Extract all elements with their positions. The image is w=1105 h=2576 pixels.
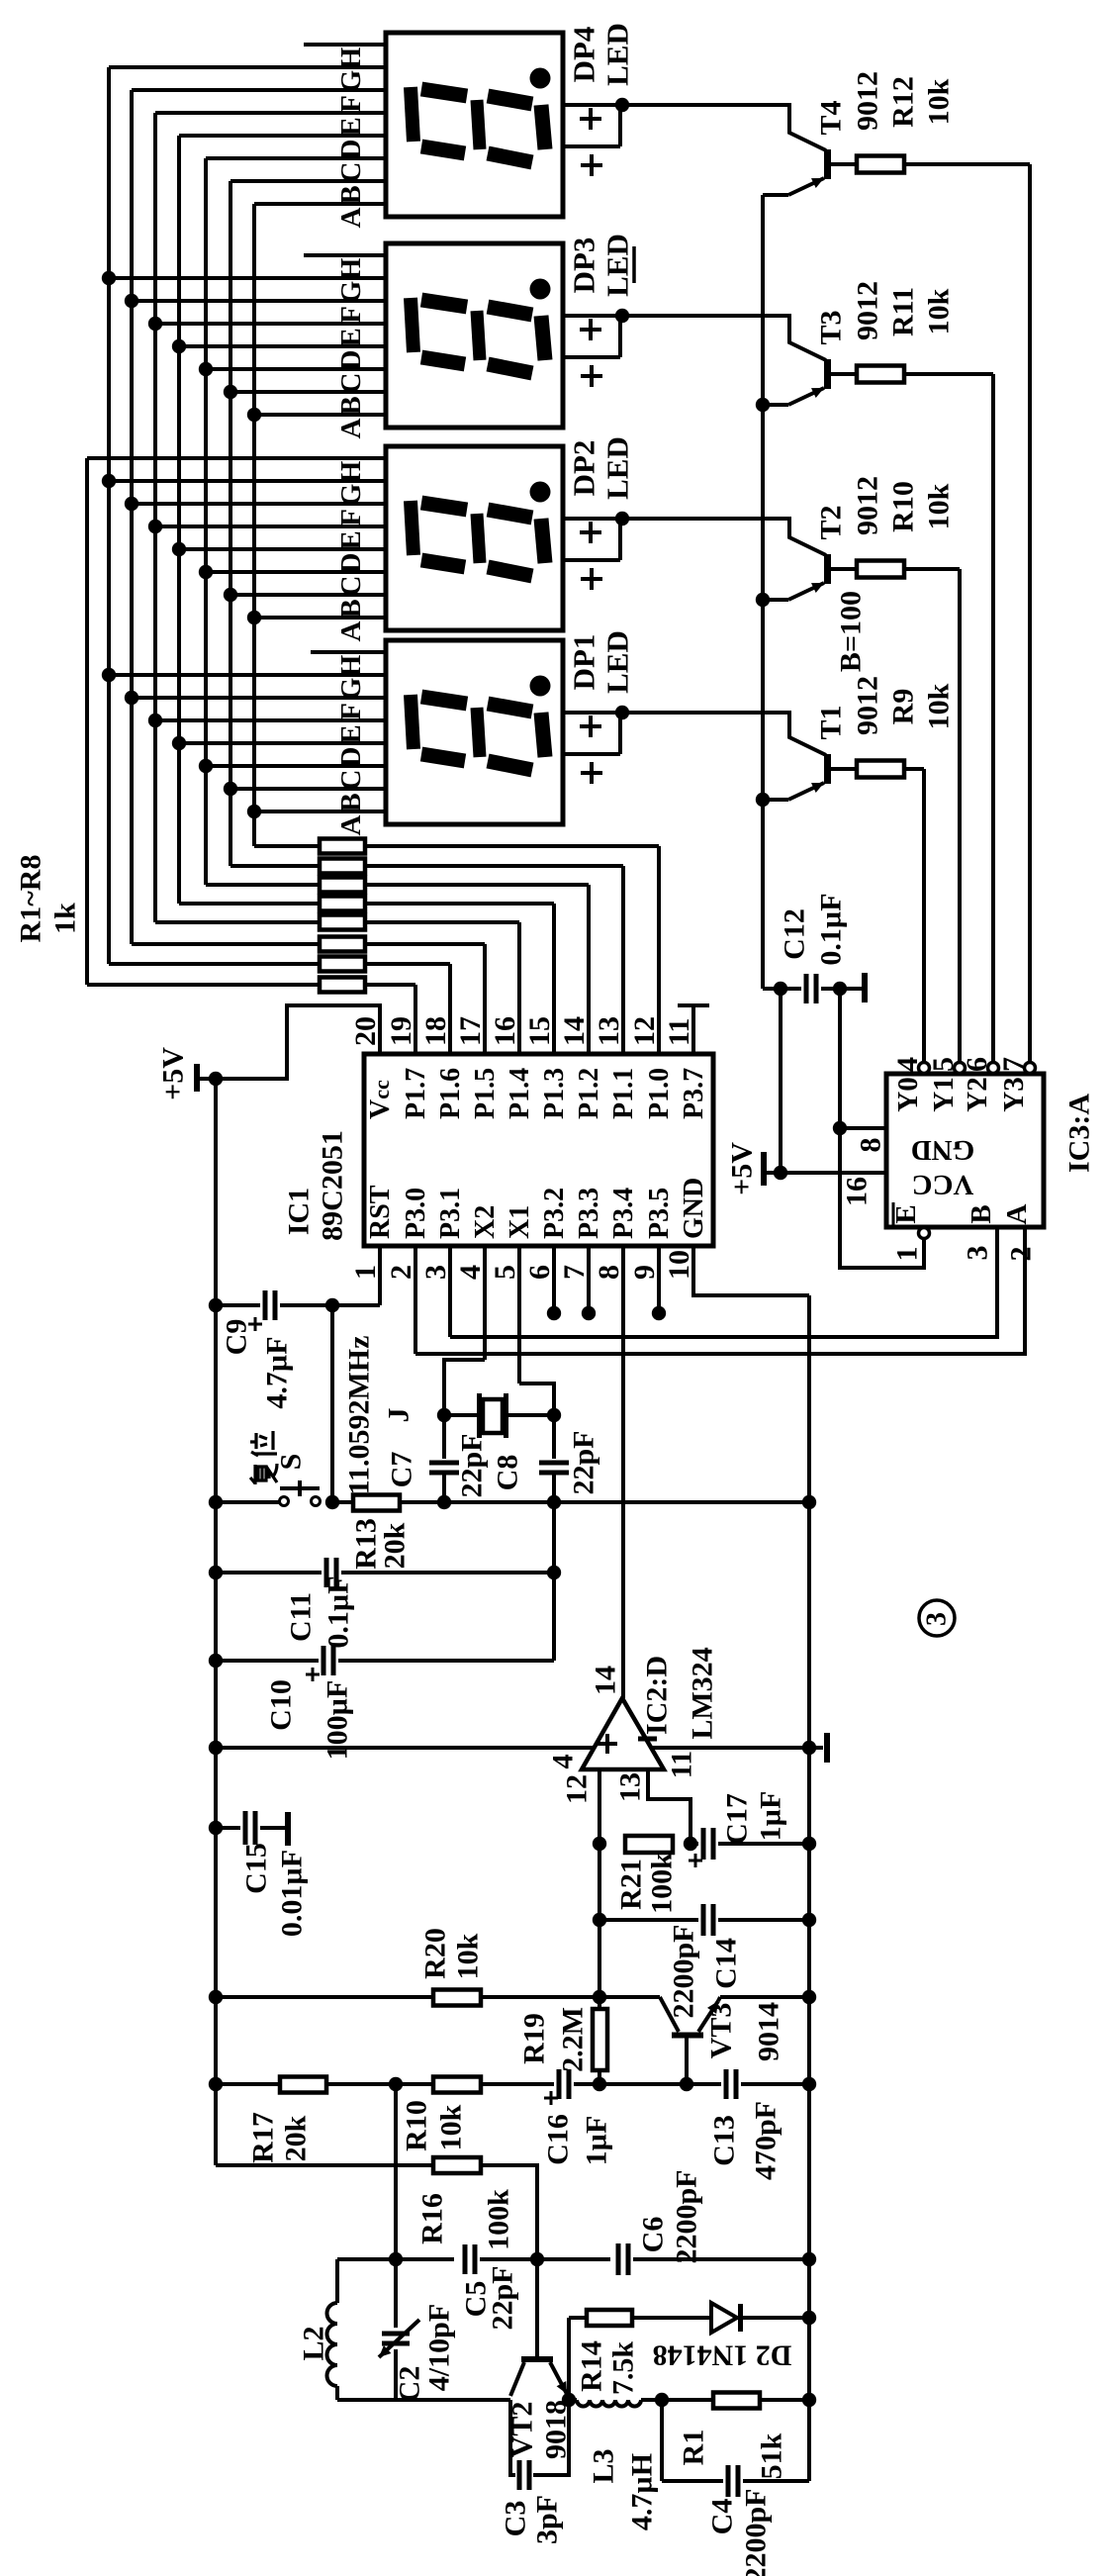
svg-text:15: 15: [523, 1016, 556, 1046]
svg-text:S: S: [275, 1454, 308, 1471]
svg-text:P1.4: P1.4: [505, 1068, 535, 1119]
svg-text:13: 13: [614, 1772, 647, 1802]
svg-text:17: 17: [454, 1016, 487, 1046]
svg-text:14: 14: [590, 1666, 622, 1695]
svg-text:R11: R11: [887, 287, 920, 336]
svg-text:C13: C13: [708, 2115, 741, 2166]
svg-text:P1.0: P1.0: [644, 1068, 675, 1119]
svg-text:7.5k: 7.5k: [607, 2341, 640, 2396]
svg-text:B=100: B=100: [835, 591, 868, 672]
svg-text:LED: LED: [600, 630, 635, 694]
svg-text:19: 19: [385, 1016, 417, 1046]
svg-text:R21: R21: [615, 1859, 648, 1910]
svg-text:1µF: 1µF: [755, 1791, 787, 1842]
svg-text:T3: T3: [815, 310, 848, 344]
svg-text:C9: C9: [221, 1319, 253, 1356]
svg-text:100k: 100k: [483, 2189, 515, 2250]
svg-text:GND: GND: [911, 1134, 974, 1166]
svg-text:DP3: DP3: [567, 238, 601, 294]
svg-text:R10: R10: [401, 2100, 433, 2151]
svg-text:12: 12: [628, 1016, 661, 1046]
svg-text:L3: L3: [588, 2448, 620, 2483]
svg-text:6: 6: [961, 1057, 993, 1072]
svg-text:2.2M: 2.2M: [557, 2007, 590, 2072]
svg-text:7: 7: [558, 1265, 591, 1280]
svg-text:R19: R19: [518, 2013, 551, 2064]
svg-text:2200pF: 2200pF: [668, 1924, 700, 2018]
svg-text:10k: 10k: [923, 683, 956, 729]
svg-text:11.0592MHz: 11.0592MHz: [343, 1336, 376, 1495]
svg-text:T4: T4: [815, 100, 848, 135]
svg-text:12: 12: [561, 1774, 594, 1804]
svg-text:2: 2: [1005, 1247, 1038, 1262]
svg-text:A: A: [335, 814, 367, 835]
svg-text:L2: L2: [298, 2326, 330, 2360]
svg-text:0.1µF: 0.1µF: [322, 1575, 355, 1648]
svg-text:R16: R16: [416, 2193, 449, 2244]
svg-text:P1.1: P1.1: [608, 1068, 639, 1119]
svg-text:9: 9: [628, 1265, 661, 1280]
svg-text:14: 14: [558, 1016, 591, 1046]
svg-text:89C2051: 89C2051: [317, 1130, 349, 1241]
svg-text:10k: 10k: [452, 1933, 485, 1979]
svg-text:C6: C6: [637, 2217, 670, 2253]
svg-text:Y3: Y3: [998, 1077, 1030, 1111]
svg-text:5: 5: [489, 1265, 521, 1280]
svg-text:F: F: [335, 509, 367, 526]
svg-text:4: 4: [454, 1265, 487, 1280]
svg-text:DP1: DP1: [567, 634, 601, 691]
svg-text:C15: C15: [240, 1843, 273, 1894]
svg-text:D2 1N4148: D2 1N4148: [653, 2339, 792, 2372]
svg-text:6: 6: [523, 1265, 556, 1280]
svg-text:P1.6: P1.6: [435, 1068, 466, 1119]
svg-text:4/10pF: 4/10pF: [423, 2304, 456, 2391]
svg-text:VT3: VT3: [705, 2003, 738, 2059]
svg-text:3: 3: [962, 1246, 994, 1261]
svg-text:R9: R9: [887, 689, 920, 725]
svg-text:B: B: [335, 599, 367, 618]
svg-text:B: B: [966, 1204, 997, 1223]
svg-text:P1.7: P1.7: [401, 1068, 431, 1119]
svg-text:E: E: [335, 328, 367, 346]
svg-text:P3.1: P3.1: [435, 1188, 466, 1239]
svg-text:1µF: 1µF: [581, 2116, 613, 2166]
svg-text:+5V: +5V: [726, 1142, 759, 1195]
svg-text:8: 8: [593, 1265, 625, 1280]
svg-text:11: 11: [666, 1751, 698, 1778]
svg-text:RST: RST: [365, 1185, 396, 1239]
svg-text:20: 20: [349, 1016, 382, 1046]
svg-text:A: A: [1001, 1203, 1033, 1224]
svg-text:LED: LED: [600, 234, 635, 297]
svg-text:5: 5: [927, 1057, 960, 1072]
svg-text:8: 8: [855, 1138, 887, 1153]
svg-text:470pF: 470pF: [750, 2101, 783, 2180]
svg-text:DP2: DP2: [567, 440, 601, 497]
svg-text:10k: 10k: [435, 2104, 468, 2150]
svg-text:F: F: [335, 306, 367, 324]
svg-text:T2: T2: [815, 505, 848, 539]
svg-text:0.1µF: 0.1µF: [815, 893, 848, 965]
svg-text:LED: LED: [600, 436, 635, 500]
svg-text:R1: R1: [678, 2430, 710, 2466]
svg-text:C4: C4: [706, 2499, 739, 2535]
svg-text:P3.3: P3.3: [574, 1188, 604, 1239]
svg-text:C3: C3: [500, 2501, 532, 2537]
svg-text:9012: 9012: [852, 676, 884, 735]
svg-text:9012: 9012: [852, 281, 884, 340]
svg-text:P3.5: P3.5: [644, 1188, 675, 1239]
svg-text:100k: 100k: [646, 1853, 679, 1914]
svg-text:IC2:D: IC2:D: [641, 1656, 674, 1735]
svg-text:1k: 1k: [49, 903, 82, 934]
svg-text:P3.2: P3.2: [539, 1188, 570, 1239]
svg-text:7: 7: [997, 1057, 1030, 1072]
svg-text:T1: T1: [815, 705, 848, 739]
svg-text:2: 2: [385, 1265, 417, 1280]
svg-text:4: 4: [891, 1057, 924, 1072]
svg-text:R12: R12: [887, 76, 920, 128]
svg-text:IC1: IC1: [283, 1188, 316, 1235]
svg-text:C16: C16: [542, 2114, 575, 2165]
svg-text:X2: X2: [470, 1205, 501, 1239]
svg-text:3: 3: [922, 1612, 953, 1626]
svg-text:E: E: [335, 117, 367, 136]
svg-text:A: A: [335, 620, 367, 641]
svg-text:P3.4: P3.4: [608, 1188, 639, 1239]
svg-text:4: 4: [547, 1755, 580, 1769]
svg-text:Y0: Y0: [892, 1077, 924, 1111]
svg-text:51k: 51k: [756, 2433, 788, 2479]
svg-text:Y1: Y1: [928, 1077, 960, 1111]
svg-text:LM324: LM324: [687, 1647, 719, 1739]
svg-text:22pF: 22pF: [487, 2265, 519, 2330]
svg-text:P3.0: P3.0: [401, 1188, 431, 1239]
svg-text:X1: X1: [505, 1205, 535, 1239]
svg-text:J: J: [383, 1408, 415, 1423]
svg-text:22pF: 22pF: [568, 1430, 600, 1494]
svg-text:A: A: [335, 207, 367, 228]
svg-text:4.7µH: 4.7µH: [626, 2453, 659, 2530]
svg-text:20k: 20k: [379, 1522, 412, 1569]
svg-text:R17: R17: [247, 2112, 280, 2163]
svg-text:F: F: [335, 703, 367, 720]
svg-text:18: 18: [419, 1016, 452, 1046]
svg-text:13: 13: [593, 1016, 625, 1046]
svg-text:3: 3: [419, 1265, 452, 1280]
svg-text:Vcc: Vcc: [365, 1080, 396, 1119]
svg-text:IC3:A: IC3:A: [1063, 1094, 1096, 1173]
svg-text:C17: C17: [721, 1793, 754, 1845]
svg-text:LED: LED: [600, 23, 635, 86]
svg-text:C10: C10: [265, 1679, 298, 1731]
svg-text:9012: 9012: [852, 476, 884, 535]
svg-text:10k: 10k: [923, 78, 956, 125]
svg-text:E: E: [335, 530, 367, 549]
svg-text:E: E: [890, 1204, 922, 1223]
svg-text:GND: GND: [679, 1178, 709, 1239]
svg-text:DP4: DP4: [567, 27, 601, 83]
svg-text:B: B: [335, 793, 367, 811]
svg-text:0.01µF: 0.01µF: [276, 1850, 309, 1937]
svg-text:9012: 9012: [852, 71, 884, 131]
svg-text:C12: C12: [779, 908, 811, 960]
svg-text:P3.7: P3.7: [679, 1068, 709, 1119]
svg-text:C7: C7: [386, 1452, 418, 1488]
svg-text:P1.5: P1.5: [470, 1068, 501, 1119]
svg-text:VCC: VCC: [912, 1169, 974, 1200]
svg-text:C2: C2: [394, 2366, 426, 2403]
svg-text:P1.2: P1.2: [574, 1068, 604, 1119]
svg-text:1: 1: [891, 1247, 924, 1262]
svg-text:P1.3: P1.3: [539, 1068, 570, 1119]
svg-text:B: B: [335, 396, 367, 415]
svg-text:11: 11: [663, 1018, 695, 1046]
svg-text:20k: 20k: [280, 2115, 313, 2161]
svg-text:9014: 9014: [753, 2002, 785, 2061]
svg-text:A: A: [335, 418, 367, 438]
svg-text:R10: R10: [887, 481, 920, 532]
svg-text:E: E: [335, 724, 367, 743]
svg-text:10: 10: [663, 1250, 695, 1280]
svg-text:+5V: +5V: [157, 1047, 190, 1100]
svg-text:2200pF: 2200pF: [671, 2169, 703, 2263]
svg-text:F: F: [335, 95, 367, 113]
svg-text:R20: R20: [419, 1928, 452, 1979]
svg-text:1: 1: [349, 1265, 382, 1280]
svg-text:C8: C8: [492, 1455, 524, 1491]
svg-text:3pF: 3pF: [531, 2495, 564, 2544]
svg-text:Y2: Y2: [962, 1077, 993, 1111]
svg-text:10k: 10k: [923, 288, 956, 334]
svg-text:C11: C11: [285, 1592, 318, 1642]
svg-text:16: 16: [841, 1177, 874, 1206]
svg-text:B: B: [335, 185, 367, 204]
svg-text:C14: C14: [710, 1938, 743, 1989]
svg-text:10k: 10k: [923, 483, 956, 529]
svg-text:R1~R8: R1~R8: [15, 855, 47, 943]
svg-text:2200pF: 2200pF: [740, 2488, 773, 2576]
svg-text:16: 16: [489, 1016, 521, 1046]
svg-text:R14: R14: [576, 2340, 608, 2392]
svg-text:4.7µF: 4.7µF: [261, 1336, 294, 1408]
svg-text:22pF: 22pF: [456, 1433, 489, 1497]
